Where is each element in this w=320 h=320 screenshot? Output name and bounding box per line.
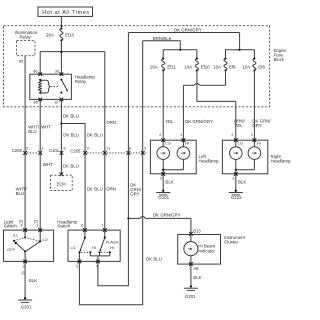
svg-text:30: 30 (55, 69, 60, 74)
svg-text:87: 87 (55, 99, 60, 104)
svg-text:G201: G201 (21, 304, 32, 309)
svg-text:FLASH: FLASH (106, 240, 119, 245)
svg-text:YEL: YEL (234, 123, 243, 128)
svg-text:Ef10: Ef10 (201, 64, 210, 69)
svg-text:DK GRN/GRY: DK GRN/GRY (185, 119, 213, 124)
svg-text:85: 85 (19, 59, 24, 64)
svg-text:ECM: ECM (57, 182, 67, 187)
svg-text:Switch: Switch (57, 224, 70, 229)
svg-text:ORN: ORN (106, 187, 116, 192)
svg-text:C101: C101 (49, 148, 60, 153)
svg-text:DK BLU: DK BLU (87, 133, 103, 138)
svg-text:86: 86 (33, 69, 38, 74)
svg-text:G101: G101 (158, 195, 169, 200)
svg-text:4: 4 (21, 224, 23, 228)
svg-text:A8: A8 (193, 266, 199, 271)
svg-text:DK BLU: DK BLU (63, 164, 79, 169)
svg-text:WHT: WHT (43, 162, 53, 167)
svg-text:1: 1 (37, 224, 39, 228)
svg-text:[3]: [3] (22, 271, 26, 275)
svg-text:6: 6 (64, 147, 66, 151)
svg-text:3: 3 (41, 147, 43, 151)
svg-text:LO: LO (71, 245, 76, 250)
svg-text:HI: HI (257, 140, 261, 145)
svg-text:BLK: BLK (165, 180, 173, 185)
svg-text:Block: Block (274, 57, 285, 62)
svg-text:Indicator: Indicator (198, 248, 215, 253)
svg-text:10A: 10A (184, 64, 192, 69)
svg-text:C206: C206 (12, 148, 23, 153)
svg-text:G201: G201 (185, 294, 196, 299)
svg-text:Ef18: Ef18 (65, 33, 74, 38)
svg-text:DK BLU: DK BLU (63, 133, 79, 138)
svg-text:1: 1 (251, 133, 253, 137)
svg-text:BLU: BLU (28, 129, 36, 134)
svg-text:BLK: BLK (193, 275, 201, 280)
svg-text:GRY: GRY (130, 191, 139, 196)
svg-text:2: 2 (159, 133, 161, 137)
svg-text:DK GRN/GRY: DK GRN/GRY (174, 28, 202, 33)
svg-text:2: 2 (23, 265, 25, 269)
svg-text:11: 11 (106, 147, 110, 151)
svg-text:4: 4 (96, 265, 98, 269)
svg-text:Switch: Switch (4, 224, 17, 229)
svg-text:LO: LO (238, 140, 243, 145)
svg-text:8: 8 (129, 147, 131, 151)
svg-text:DK GRN/GRY: DK GRN/GRY (153, 213, 181, 218)
svg-text:LO: LO (43, 237, 48, 242)
svg-text:HI: HI (92, 245, 96, 250)
svg-text:BRN/BLK: BRN/BLK (153, 36, 172, 41)
svg-text:WHT: WHT (41, 125, 51, 130)
svg-text:HI: HI (185, 140, 189, 145)
svg-text:85: 85 (33, 99, 38, 104)
svg-text:Headlamp: Headlamp (199, 159, 220, 164)
svg-text:9: 9 (87, 147, 89, 151)
svg-text:BLK: BLK (238, 180, 246, 185)
svg-text:DK BLU: DK BLU (63, 113, 79, 118)
svg-text:6: 6 (81, 224, 83, 228)
svg-text:Hot at All Times: Hot at All Times (42, 10, 89, 16)
svg-text:ORN: ORN (106, 120, 116, 125)
svg-text:Ef11: Ef11 (167, 64, 176, 69)
svg-text:1: 1 (180, 133, 182, 137)
svg-text:3: 3 (160, 176, 162, 180)
svg-text:10A: 10A (150, 64, 158, 69)
svg-text:Relay: Relay (75, 79, 87, 84)
svg-text:10A: 10A (242, 64, 250, 69)
svg-text:YEL: YEL (165, 119, 174, 124)
svg-text:3: 3 (232, 176, 234, 180)
svg-text:C205: C205 (70, 149, 81, 154)
svg-text:Ef9: Ef9 (229, 64, 236, 69)
svg-text:BLU: BLU (16, 191, 24, 196)
svg-text:LO: LO (165, 140, 170, 145)
svg-text:Relay: Relay (20, 35, 32, 40)
svg-text:GRY: GRY (252, 123, 262, 128)
svg-text:OFF: OFF (7, 247, 15, 252)
svg-text:2: 2 (26, 147, 28, 151)
svg-text:Headlamp: Headlamp (271, 159, 292, 164)
svg-text:G102: G102 (231, 195, 242, 200)
svg-text:Ef8: Ef8 (258, 64, 265, 69)
svg-text:3: 3 (144, 147, 146, 151)
svg-text:BLK: BLK (29, 278, 37, 283)
svg-text:ILL: ILL (13, 233, 19, 238)
svg-text:DK BLU: DK BLU (146, 257, 162, 262)
svg-text:DK BLU: DK BLU (87, 187, 103, 192)
svg-text:10A: 10A (213, 64, 221, 69)
svg-text:HI: HI (110, 245, 114, 250)
svg-text:Cluster: Cluster (224, 239, 238, 244)
svg-text:5: 5 (76, 265, 78, 269)
svg-text:2: 2 (231, 133, 233, 137)
svg-text:20A: 20A (46, 32, 54, 37)
svg-text:7: 7 (101, 224, 103, 228)
svg-text:B13: B13 (193, 229, 201, 234)
